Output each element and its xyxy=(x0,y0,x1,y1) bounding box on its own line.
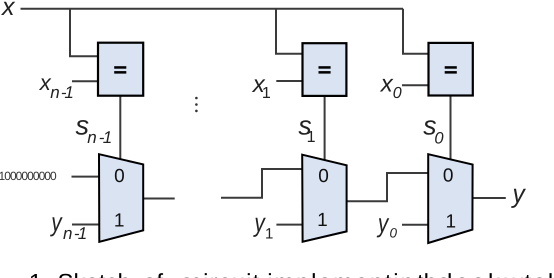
svg-text:1: 1 xyxy=(317,210,328,231)
svg-text:lookup: lookup xyxy=(447,270,536,278)
svg-text:of: of xyxy=(143,270,163,278)
svg-text:1: 1 xyxy=(446,212,457,233)
svg-text:table: table xyxy=(525,270,554,278)
svg-text:1: 1 xyxy=(265,225,273,242)
svg-text:implementing: implementing xyxy=(267,270,430,278)
svg-text:1: 1 xyxy=(307,129,316,146)
svg-text:the: the xyxy=(417,270,450,278)
svg-text:1: 1 xyxy=(78,224,87,243)
svg-text:n: n xyxy=(63,224,72,243)
svg-text:0: 0 xyxy=(443,166,454,187)
svg-text:1000000000: 1000000000 xyxy=(0,169,57,183)
svg-text:0: 0 xyxy=(390,225,398,240)
svg-text:n: n xyxy=(87,128,96,147)
svg-text:1: 1 xyxy=(64,83,73,102)
svg-text:0: 0 xyxy=(434,130,444,148)
svg-text:y: y xyxy=(511,179,527,209)
svg-text:0: 0 xyxy=(114,166,125,187)
svg-text:1: 1 xyxy=(114,211,125,232)
svg-text:circuit: circuit xyxy=(190,270,260,278)
svg-text:x: x xyxy=(1,0,16,21)
svg-text:0: 0 xyxy=(393,85,402,102)
svg-text:1: 1 xyxy=(262,85,271,102)
svg-text:1: 1 xyxy=(103,128,112,147)
svg-text:0: 0 xyxy=(318,166,329,187)
svg-text:Sketch: Sketch xyxy=(58,270,131,278)
svg-text:n: n xyxy=(50,83,59,102)
svg-text:x: x xyxy=(380,70,394,97)
svg-text:y: y xyxy=(376,208,390,238)
svg-text:1.: 1. xyxy=(29,270,49,278)
svg-text:y: y xyxy=(50,207,64,237)
